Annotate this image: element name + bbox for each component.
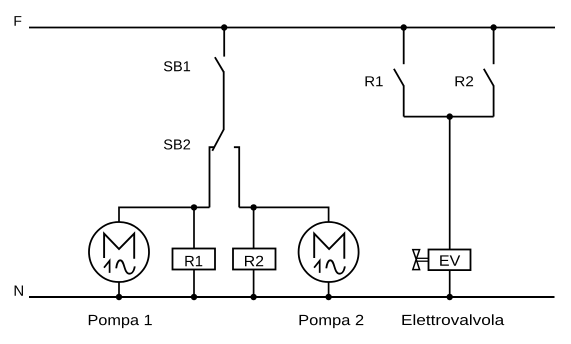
label R2 [456,76,474,86]
wire motor M2 to N bus [328,282,330,297]
junction coil R1 on N bus [191,294,197,300]
junction coil R2 on N bus [250,294,256,300]
switch SB2 left contact [210,147,215,207]
wire SB1 to SB2 [223,71,225,130]
switch SB2 right contact [234,147,239,207]
junction motor M1 on N bus [116,294,122,300]
wire F bus (phase line) [29,27,555,29]
wire joining contacts R1 and R2 [404,116,494,118]
wire N bus (neutral line) [29,296,555,298]
label Pompa 2 [300,315,364,328]
wire tap to coil R1 [193,207,195,248]
label R1 [366,76,383,86]
wire SB2 right contact to motor M2 [239,207,328,222]
label SB1 [164,61,190,71]
relay coil R2 [233,249,276,270]
junction EV on N bus [447,294,453,300]
wire EV feed [449,117,451,250]
label N [15,285,23,295]
solenoid coil EV [429,250,471,271]
relay coil R1 [173,249,216,270]
label F [15,16,22,26]
valve body (bowtie) [413,250,420,270]
wire coil R1 to N bus [193,270,195,298]
wire SB2 left contact to motor M1 [119,207,210,222]
junction on F bus at contact R2 [490,24,496,30]
junction coil R1 tap [191,204,197,210]
switch SB2 blade [212,130,223,151]
wire motor M1 to N bus [118,282,120,297]
label SB2 [164,139,190,149]
junction EV feed [447,113,453,119]
motor M2 (Pompa 2) [299,222,359,282]
junction coil R2 tap [250,204,256,210]
switch SB1 [215,28,224,73]
contact R2 [484,28,494,117]
contact R1 [394,28,404,117]
motor M1 (Pompa 1) [89,222,149,282]
valve to coil link (double line) [417,258,429,261]
junction motor M2 on N bus [325,294,331,300]
wire EV to N bus [449,270,451,297]
junction on F bus at contact R1 [401,24,407,30]
label Pompa 1 [89,315,152,328]
wire coil R2 to N bus [253,270,255,298]
wire tap to coil R2 [253,207,255,248]
junction on F bus at SB1 [221,24,227,30]
label Elettrovalvola [402,314,504,325]
